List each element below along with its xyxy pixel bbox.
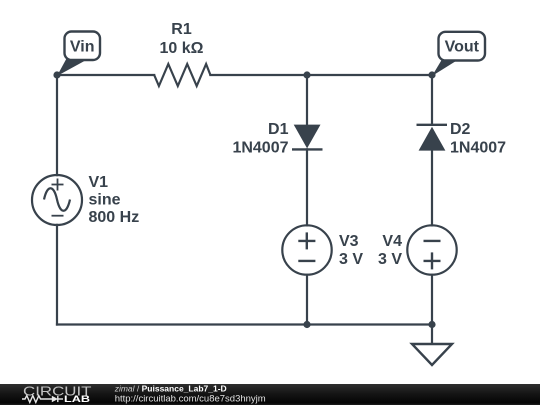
svg-text:V1: V1 [89,174,109,191]
svg-text:3 V: 3 V [339,251,363,268]
svg-text:1N4007: 1N4007 [232,139,288,156]
D1 designator label [268,121,289,138]
CircuitLab logo LAB wordmark [64,394,91,404]
CircuitLab logo resistor squiggle and wire [22,396,63,403]
svg-text:D2: D2 [450,121,471,138]
node A top junction dot [303,71,310,78]
wire top rail: resistor R1 to node A junction [210,74,307,76]
V3 value label 3 V [339,251,363,268]
V4 plus polarity mark [424,252,441,269]
diode D2 [417,125,448,151]
wire middle branch: V3 negative terminal down to bottom rail junction [306,275,308,325]
node Vin junction dot [53,71,60,78]
svg-text:D1: D1 [268,121,289,138]
wire right branch: V4 positive terminal down to ground junction [431,275,433,325]
svg-text:http://circuitlab.com/cu8e7sd3: http://circuitlab.com/cu8e7sd3hnyjm [115,394,266,405]
V4 designator label [382,233,402,250]
wire right branch: Vout node down to D2 cathode [431,75,433,125]
wire ground stem [431,325,433,345]
CircuitLab logo diode glyph [52,396,58,403]
net label flag Vin [57,32,100,77]
node bottom rail middle junction dot [303,321,310,328]
resistor R1 [154,64,210,86]
svg-text:800 Hz: 800 Hz [89,209,140,226]
D2 designator label [450,121,471,138]
voltage source V4 body circle [407,225,456,274]
V1 plus polarity mark [52,179,64,191]
diode D1 [292,125,323,150]
CircuitLab logo CIRCUIT wordmark [23,384,92,399]
R1 designator label [171,21,192,38]
V3 minus polarity mark [298,260,315,262]
footer black bar [0,384,540,405]
svg-text:10 kΩ: 10 kΩ [160,40,204,57]
voltage source V3 body circle [282,225,331,274]
footer url line [115,394,266,405]
svg-text:R1: R1 [171,21,192,38]
V1 minus polarity mark [52,215,64,217]
D1 value label 1N4007 [232,139,288,156]
R1 value label 10 kOhm [160,40,204,57]
svg-text:zimal / Puissance_Lab7_1-D: zimal / Puissance_Lab7_1-D [114,384,227,394]
svg-text:sine: sine [89,192,121,209]
svg-text:V4: V4 [382,233,402,250]
svg-text:3 V: 3 V [378,251,402,268]
D2 value label 1N4007 [450,139,506,156]
wire middle branch: D1 cathode down to V3 positive terminal [306,149,308,225]
svg-text:Vin: Vin [70,39,95,56]
V1 value label sine 800 Hz [89,192,140,227]
svg-text:V3: V3 [339,233,359,250]
V4 value label 3 V [378,251,402,268]
voltage source V1 body circle [32,175,82,225]
wire top rail: Vin node to resistor R1 left lead [57,74,154,76]
node bottom rail ground junction dot [428,321,435,328]
wire left branch: V1 negative terminal down to bottom rail [56,225,58,325]
ground symbol [412,344,452,365]
wire right branch: D2 anode down to V4 negative terminal [431,151,433,226]
node Vout junction dot [428,71,435,78]
V3 plus polarity mark [298,232,315,249]
V4 minus polarity mark [424,240,441,242]
svg-text:LAB: LAB [64,394,91,404]
net label flag Vout [432,32,485,76]
wire bottom rail [57,323,432,325]
svg-text:1N4007: 1N4007 [450,139,506,156]
V1 designator label [89,174,109,191]
footer credit line zimal / Puissance_Lab7_1-D [114,384,227,394]
wire top rail: node A junction to Vout node [307,74,432,76]
V1 sine waveform glyph [44,188,70,211]
wire left branch: Vin node down to V1 positive terminal [56,75,58,175]
V3 designator label [339,233,359,250]
svg-text:Vout: Vout [445,39,480,56]
wire middle branch: node A down to D1 anode [306,75,308,125]
